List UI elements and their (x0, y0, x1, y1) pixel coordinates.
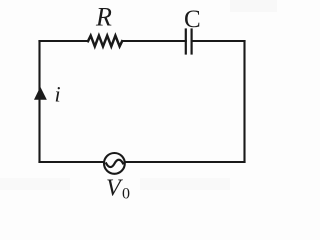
svg-text:R: R (95, 3, 112, 32)
svg-text:i: i (55, 82, 61, 107)
svg-text:0: 0 (122, 186, 130, 203)
svg-text:C: C (184, 6, 201, 33)
svg-text:V: V (106, 175, 123, 201)
